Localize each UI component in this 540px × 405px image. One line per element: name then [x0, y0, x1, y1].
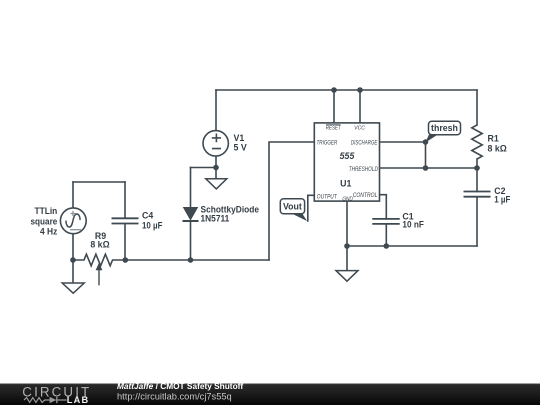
- wire diode anode lead: [190, 168, 192, 208]
- svg-text:R1: R1: [488, 133, 499, 143]
- wire discharge: [380, 141, 426, 143]
- wire trigger riser: [269, 142, 314, 260]
- wire diode cathode lead: [190, 222, 192, 260]
- ground (IC gnd): [336, 246, 358, 281]
- svg-text:C4: C4: [142, 210, 153, 220]
- voltage source TTLin (square source): [60, 208, 86, 234]
- wire TTL source bottom lead: [72, 234, 74, 261]
- label C4 10uF: [142, 210, 163, 230]
- op-amp U1 555 IC body: [314, 123, 379, 201]
- svg-text:10 µF: 10 µF: [142, 221, 163, 231]
- svg-text:Vout: Vout: [283, 201, 302, 211]
- svg-text:TTLin: TTLin: [35, 206, 58, 216]
- node diode bottom junction: [188, 257, 194, 263]
- wire control to C1: [380, 195, 387, 219]
- node thresh flag: [425, 121, 460, 142]
- ground (TTL source): [62, 260, 84, 293]
- node threshold junction: [423, 165, 429, 171]
- node R1/C2 junction: [474, 165, 480, 171]
- label TTLin square 4 Hz: [31, 206, 58, 236]
- svg-text:10 nF: 10 nF: [402, 220, 424, 230]
- svg-text:1 µF: 1 µF: [494, 195, 511, 205]
- wire main bottom-left rail: [125, 259, 269, 261]
- node C4/R9 junction: [123, 257, 129, 263]
- svg-text:8 kΩ: 8 kΩ: [488, 144, 507, 154]
- svg-text:thresh: thresh: [431, 123, 458, 133]
- resistor R1: [472, 125, 482, 159]
- node gnd junction: [344, 243, 350, 249]
- node reset/top rail junction: [331, 87, 337, 93]
- node C1 bottom junction: [384, 243, 390, 249]
- wire C1 bottom lead: [385, 224, 387, 246]
- svg-text:CONTROL: CONTROL: [353, 193, 378, 199]
- svg-text:VCC: VCC: [354, 126, 365, 132]
- wire V1 bottom lead: [215, 156, 217, 168]
- label V1 5V: [234, 133, 247, 153]
- wire top-left rail: [73, 181, 125, 183]
- pin label RESET: [326, 125, 342, 132]
- svg-text:THRESHOLD: THRESHOLD: [349, 167, 379, 173]
- capacitor C4: [112, 218, 139, 223]
- label SchottkyDiode 1N5711: [201, 204, 260, 223]
- wire R1 top lead: [476, 90, 478, 125]
- node V1 minus junction: [213, 165, 219, 171]
- wire V1 node to diode branch: [191, 167, 217, 169]
- svg-text:square: square: [31, 216, 58, 226]
- svg-text:OUTPUT: OUTPUT: [317, 194, 338, 200]
- wire R1 bottom lead: [476, 159, 478, 168]
- svg-text:1N5711: 1N5711: [201, 214, 230, 224]
- capacitor C2: [464, 192, 491, 197]
- wire C4 bottom lead: [124, 224, 126, 260]
- ground (V1): [206, 168, 227, 189]
- wire gnd pin lead: [346, 201, 348, 246]
- R9 wiper arrow: [96, 263, 103, 286]
- CircuitLab logo: [22, 384, 91, 405]
- wire output stub: [308, 195, 315, 221]
- wire threshold rail: [380, 167, 478, 169]
- svg-text:GND: GND: [342, 196, 353, 202]
- svg-text:TRIGGER: TRIGGER: [317, 140, 338, 146]
- wire C2 top lead: [476, 168, 478, 191]
- label R1 8kohm: [488, 133, 507, 153]
- svg-text:4 Hz: 4 Hz: [40, 227, 58, 237]
- voltage source V1: [203, 131, 228, 156]
- svg-text:LAB: LAB: [67, 395, 89, 405]
- wire discharge to threshold link: [425, 142, 427, 168]
- node discharge junction: [423, 139, 429, 145]
- node vcc/top rail junction: [357, 87, 363, 93]
- svg-text:555: 555: [340, 151, 355, 161]
- label R9 8kohm: [90, 231, 109, 250]
- node TTL bottom junction: [70, 257, 76, 263]
- svg-text:V1: V1: [234, 133, 245, 143]
- wire vcc to top rail: [359, 90, 361, 123]
- svg-text:MattJaffe / CMOT Safety Shutof: MattJaffe / CMOT Safety Shutoff: [117, 381, 243, 391]
- svg-text:5 V: 5 V: [234, 143, 247, 153]
- svg-text:RESET: RESET: [326, 126, 342, 132]
- svg-text:DISCHARGE: DISCHARGE: [351, 140, 378, 146]
- diode D1 SchottkyDiode: [183, 208, 199, 222]
- svg-text:8 kΩ: 8 kΩ: [90, 239, 109, 249]
- wire C4 top lead: [124, 182, 126, 218]
- wire V1 top lead: [215, 90, 217, 131]
- capacitor C1: [372, 219, 399, 224]
- wire TTL source top lead: [72, 182, 74, 208]
- wire bottom rail: [347, 245, 477, 247]
- svg-text:http://circuitlab.com/cj7s55q: http://circuitlab.com/cj7s55q: [117, 392, 232, 402]
- label C1 10nF: [402, 211, 424, 229]
- node Vout flag: [280, 199, 307, 221]
- wire top rail V1 to R1: [216, 89, 477, 91]
- label C2 1uF: [494, 186, 511, 204]
- svg-text:U1: U1: [340, 178, 351, 188]
- wire C2 bottom lead: [476, 197, 478, 246]
- wire reset to top rail: [333, 90, 335, 123]
- resistor R9 (variable): [73, 254, 125, 266]
